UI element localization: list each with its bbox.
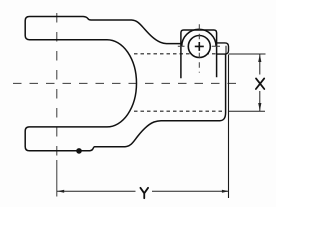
label X xyxy=(256,78,264,89)
bearing center cross xyxy=(195,42,204,51)
bearing dome arc xyxy=(182,29,216,46)
node tube-OD-top-hidden xyxy=(134,53,217,55)
bearing horizontal centerline stubs xyxy=(178,45,220,47)
weld dot on bottom ear xyxy=(76,148,82,154)
dimension Y line xyxy=(57,190,229,192)
dimension X extension bottom xyxy=(229,110,265,112)
yoke top ear outline xyxy=(25,16,181,43)
bearing bore circle xyxy=(188,36,210,58)
node tube-OD-bottom-hidden xyxy=(134,110,224,112)
node main-centerline xyxy=(13,82,237,84)
yoke slot arc xyxy=(107,40,137,127)
yoke bottom ear and hub outline xyxy=(25,54,225,150)
arrowhead X bottom xyxy=(258,103,261,111)
bearing cap U1 xyxy=(181,30,217,78)
protrusion inner edge xyxy=(225,46,227,54)
arrowhead X top xyxy=(258,54,261,62)
bearing vertical centerline xyxy=(198,24,200,72)
node lug-centerline xyxy=(56,13,58,160)
wire Y-extension-left xyxy=(56,160,58,197)
arrowhead Y left xyxy=(57,190,64,193)
hub face / Y-extension-right xyxy=(228,55,230,199)
arrowhead Y right xyxy=(222,190,229,193)
label Y xyxy=(140,188,148,198)
dimension X line xyxy=(259,54,261,111)
snap-ring protrusion xyxy=(217,43,229,54)
dimension X extension top xyxy=(229,53,266,55)
